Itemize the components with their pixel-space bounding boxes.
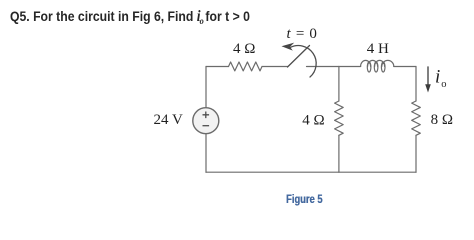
svg-text:t = 0: t = 0	[287, 26, 318, 42]
voltage source VS 24V circle	[193, 108, 219, 134]
svg-text:4 Ω: 4 Ω	[233, 41, 255, 57]
inductor L1 4H humps	[361, 60, 394, 66]
voltage source plus sign	[203, 112, 210, 126]
svg-text:8 Ω: 8 Ω	[431, 112, 453, 128]
wire right side upper	[415, 67, 417, 102]
svg-text:24 V: 24 V	[154, 112, 183, 128]
labels: serif	[154, 26, 454, 129]
wire bottom	[206, 171, 416, 173]
wire node B to inductor	[339, 66, 361, 68]
inductor L1 loop ellipses	[367, 62, 371, 72]
resistor R3 8ohm vertical zigzag	[412, 101, 421, 135]
wire middle lower	[338, 135, 340, 172]
wire switch right to node B	[307, 66, 339, 68]
svg-text:4 Ω: 4 Ω	[302, 112, 324, 128]
current arrow io	[425, 66, 431, 92]
svg-text:4 H: 4 H	[367, 41, 389, 57]
wire left side lower	[205, 134, 207, 173]
voltage source minus sign	[203, 125, 210, 127]
wire middle upper	[338, 67, 340, 102]
wire top-left segment	[206, 66, 229, 68]
resistor R2 4ohm vertical zigzag	[335, 101, 344, 135]
switch arrowhead	[282, 43, 295, 51]
title text	[10, 9, 250, 29]
resistor R1 4ohm horizontal zigzag	[229, 62, 263, 71]
svg-text:i: i	[435, 67, 440, 88]
switch SW blade	[288, 46, 317, 78]
caption Figure 5	[286, 193, 322, 205]
wire inductor to top-right corner	[394, 66, 416, 68]
wire right side lower	[415, 135, 417, 172]
wire left side upper	[205, 67, 207, 108]
switch arc	[290, 46, 316, 77]
wire resistor to switch pivot	[262, 66, 288, 68]
svg-text:o: o	[441, 79, 446, 90]
